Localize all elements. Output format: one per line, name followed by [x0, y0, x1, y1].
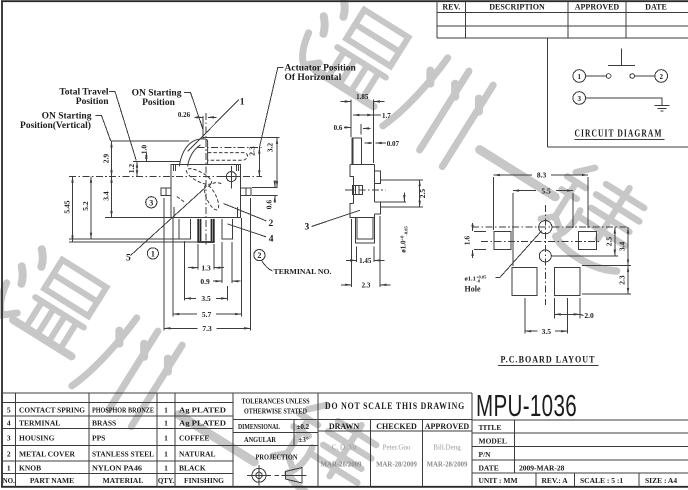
svg-text:5: 5 — [7, 406, 11, 415]
side view centerline through square — [345, 189, 386, 191]
svg-text:ON Starting: ON Starting — [42, 112, 92, 122]
svg-text:HOUSING: HOUSING — [19, 434, 55, 443]
svg-text:DO NOT SCALE THIS DRAWING: DO NOT SCALE THIS DRAWING — [325, 402, 465, 412]
rev table divider REV/DESCRIPTION — [465, 1, 467, 38]
leader total travel — [109, 92, 136, 161]
centerline horizontal through pivot — [69, 176, 262, 178]
svg-text:Bill.Deng: Bill.Deng — [433, 444, 461, 452]
pivot cross vertical — [230, 166, 232, 189]
dimension 3.4 — [111, 177, 113, 218]
leader actuator position — [259, 68, 283, 148]
svg-text:3.5: 3.5 — [201, 294, 211, 303]
pcb top hole — [539, 221, 552, 234]
svg-text:P.C.BOARD LAYOUT: P.C.BOARD LAYOUT — [501, 356, 596, 366]
svg-text:2.0: 2.0 — [584, 311, 594, 320]
label circled 1 — [147, 248, 158, 259]
circuit ground symbol — [655, 105, 670, 107]
svg-text:Ag PLATED: Ag PLATED — [179, 419, 227, 428]
dimension 1.2 — [136, 162, 138, 177]
parts table column QTY right — [174, 393, 176, 487]
leader 2 — [224, 204, 267, 221]
svg-text:BRASS: BRASS — [92, 419, 116, 428]
svg-text:CONTACT SPRING: CONTACT SPRING — [19, 406, 85, 415]
parts table column MATERIAL right — [156, 393, 158, 487]
watermark bottom chain: wen — [0, 241, 112, 358]
svg-text:CHECKED: CHECKED — [376, 422, 417, 431]
svg-text:1: 1 — [164, 434, 168, 443]
svg-text:1.6: 1.6 — [463, 236, 472, 246]
watermark top chain: jian — [534, 157, 658, 279]
svg-text:1.0: 1.0 — [140, 145, 149, 155]
svg-text:8.3: 8.3 — [537, 171, 547, 180]
svg-text:2.5: 2.5 — [604, 237, 613, 247]
circuit actuator stem — [620, 49, 622, 66]
svg-text:TERMINAL: TERMINAL — [19, 419, 60, 428]
actuator knob inner arc — [188, 145, 201, 167]
svg-text:TERMINAL NO.: TERMINAL NO. — [274, 267, 332, 276]
watermark bottom chain: jian — [266, 394, 390, 490]
title label divider — [514, 420, 516, 473]
title row line model — [472, 432, 688, 434]
pcb dimension 2.3 — [582, 293, 631, 295]
svg-text:2: 2 — [269, 219, 274, 229]
svg-text:2.3: 2.3 — [248, 146, 257, 156]
svg-text:5.45: 5.45 — [63, 200, 72, 213]
svg-text:5.7: 5.7 — [202, 310, 212, 319]
svg-text:Hole: Hole — [465, 285, 481, 294]
svg-text:0.26: 0.26 — [178, 111, 191, 119]
actuator horizontal position dashed outline — [208, 153, 248, 161]
front view body (metal cover) — [171, 165, 241, 218]
body bottom-right notch — [237, 207, 239, 218]
svg-text:QTY.: QTY. — [158, 477, 175, 485]
svg-text:DESCRIPTION: DESCRIPTION — [489, 3, 545, 12]
pcb left small pad — [494, 231, 511, 249]
svg-text:METAL COVER: METAL COVER — [19, 450, 76, 459]
svg-text:BLACK: BLACK — [179, 464, 206, 473]
svg-text:PROJECTION: PROJECTION — [256, 454, 298, 462]
svg-text:1.3: 1.3 — [201, 263, 211, 272]
leader 5 — [131, 187, 206, 255]
pcb bottom hole — [539, 250, 551, 262]
svg-text:CIRCUIT DIAGRAM: CIRCUIT DIAGRAM — [575, 129, 663, 140]
pivot cross horizontal — [223, 176, 239, 178]
svg-text:MPU-1036: MPU-1036 — [476, 388, 577, 423]
watermark bottom chain: yi — [179, 415, 254, 462]
knob dashed bean upper-left — [184, 166, 213, 188]
svg-text:MAR-28/2009: MAR-28/2009 — [321, 462, 362, 469]
pcb right small pad — [578, 231, 596, 249]
parts table right border — [232, 393, 234, 487]
extension line actuator apex right — [204, 137, 280, 139]
circuit wire terminal3 — [586, 98, 663, 106]
svg-text:3: 3 — [305, 223, 310, 233]
svg-text:2.3: 2.3 — [362, 282, 371, 290]
rev table left border — [436, 1, 438, 38]
tolerance block right border — [317, 393, 319, 487]
side view stem (knob side) — [352, 138, 362, 165]
circuit wire terminal1 to contact — [586, 75, 607, 77]
svg-text:3.5: 3.5 — [542, 327, 552, 336]
knob dashed arc top-right — [208, 183, 223, 187]
dimension 5.45 — [72, 177, 74, 242]
svg-text:PPS: PPS — [92, 434, 105, 443]
svg-text:STANLESS STEEL: STANLESS STEEL — [92, 450, 154, 459]
tolerance row line 1 — [233, 419, 318, 421]
svg-text:COFFEE: COFFEE — [179, 434, 209, 443]
svg-text:2.5: 2.5 — [418, 189, 427, 199]
svg-text:1.45: 1.45 — [359, 257, 372, 265]
svg-text:0.6: 0.6 — [265, 200, 274, 210]
svg-text:3: 3 — [577, 95, 581, 103]
leader 1 — [188, 100, 239, 152]
svg-text:2: 2 — [659, 73, 663, 81]
svg-text:NYLON PA46: NYLON PA46 — [92, 464, 142, 473]
pcb bottom left pad — [512, 268, 537, 296]
bottom row dividers — [535, 473, 537, 487]
extension line right tab top — [252, 186, 278, 188]
label circled 2 — [254, 250, 265, 261]
rev table row line 1 — [437, 12, 688, 14]
svg-text:1.2: 1.2 — [127, 164, 136, 174]
svg-text:±0.2: ±0.2 — [297, 423, 310, 431]
leader 4 — [228, 224, 267, 237]
leader ON starting vertical — [96, 116, 111, 142]
svg-text:0.07: 0.07 — [387, 140, 400, 148]
knob shaft front (center, black) — [198, 219, 214, 242]
dimension 2.3 side — [351, 219, 353, 287]
body top-right notch — [236, 165, 238, 171]
pcb dimension 5.5 — [512, 193, 514, 266]
dimension 5.2 — [90, 177, 92, 240]
svg-text:5.5: 5.5 — [541, 186, 551, 195]
donot divider drawn/checked — [370, 420, 372, 487]
rev table bottom line — [437, 37, 688, 39]
body bottom-left notch — [173, 207, 175, 218]
pcb caption underline — [498, 365, 599, 367]
dimension 1.0 — [145, 153, 147, 162]
left side tab — [161, 188, 171, 196]
circuit contact circle left — [606, 74, 611, 79]
svg-text:Position(Vertical): Position(Vertical) — [20, 120, 91, 131]
svg-text:1: 1 — [164, 419, 168, 428]
dimension 7.3 — [163, 198, 165, 331]
svg-text:NATURAL: NATURAL — [179, 450, 216, 459]
label circled 3 — [146, 197, 157, 208]
svg-text:0.9: 0.9 — [200, 277, 210, 286]
circuit actuator bar — [608, 65, 635, 67]
dimension 1.7 — [353, 114, 374, 116]
svg-text:ON Starting: ON Starting — [132, 89, 182, 99]
side view right bump 2 — [374, 202, 380, 214]
svg-text:2009-MAR-28: 2009-MAR-28 — [519, 464, 565, 473]
svg-text:TITLE: TITLE — [479, 423, 502, 432]
circuit box bottom border — [548, 146, 688, 148]
extension line body bottom left — [105, 216, 171, 218]
pcb dimension 3.5 — [524, 298, 526, 334]
svg-text:1: 1 — [7, 464, 11, 473]
circuit terminal 2 circle — [655, 70, 668, 83]
svg-text:±3°: ±3° — [299, 436, 309, 444]
circuit terminal 3 circle — [573, 92, 586, 105]
actuator knob vertical position outer arc — [179, 139, 207, 167]
terminal 2 front (right) — [222, 219, 233, 239]
svg-text:2.3: 2.3 — [618, 275, 627, 285]
svg-text:MAR-28/2009: MAR-28/2009 — [376, 462, 417, 469]
terminal 1 front (left) — [179, 219, 191, 239]
svg-text:PART NAME: PART NAME — [30, 476, 74, 485]
svg-text:1: 1 — [164, 406, 168, 415]
parts table top border — [2, 392, 472, 394]
svg-text:1: 1 — [151, 249, 155, 258]
svg-text:2.9: 2.9 — [102, 154, 111, 164]
leader terminal no — [262, 260, 273, 271]
parts table column NO right — [15, 393, 17, 487]
centerline vertical of front view — [205, 113, 207, 247]
svg-text:FINISHING: FINISHING — [184, 476, 224, 485]
svg-text:PHOSPHOR BRONZE: PHOSPHOR BRONZE — [92, 407, 154, 415]
svg-text:Of Horizontal: Of Horizontal — [285, 73, 342, 83]
circuit diagram caption underline — [575, 138, 665, 140]
svg-text:3.4: 3.4 — [102, 191, 111, 201]
pcb bottom right pad — [555, 268, 581, 296]
donot row line — [318, 419, 472, 421]
dimension 2.3 right — [258, 147, 260, 176]
pcb centerline horizontal through top hole — [472, 226, 629, 228]
svg-text:4: 4 — [269, 235, 274, 245]
svg-text:MATERIAL: MATERIAL — [103, 476, 144, 485]
pcb hole label leader — [496, 231, 542, 278]
svg-text:1.7: 1.7 — [382, 112, 391, 120]
svg-text:Position: Position — [76, 97, 109, 107]
knob dashed dash lower-left — [177, 197, 185, 203]
svg-text:1: 1 — [164, 464, 168, 473]
parts table column PART NAME right — [88, 393, 90, 487]
dimension 3.5 front — [184, 241, 186, 301]
svg-text:Peter.Guo: Peter.Guo — [383, 444, 411, 452]
svg-text:DATE: DATE — [645, 3, 667, 12]
svg-text:DRAWN: DRAWN — [329, 422, 359, 431]
pcb dimension 1.6 — [474, 230, 486, 232]
watermark top chain: yi — [480, 150, 555, 197]
dimension 0.9 — [221, 242, 223, 283]
pcb centerline through small pads — [481, 240, 601, 242]
svg-text:1: 1 — [240, 98, 245, 108]
side view lower block — [350, 204, 374, 218]
svg-text:REV.: REV. — [442, 3, 460, 12]
extension line terminal bottom — [69, 238, 179, 240]
svg-text:APPROVED: APPROVED — [425, 422, 470, 431]
title row line date — [472, 459, 688, 461]
circuit contact circle right — [630, 74, 635, 79]
svg-text:REV.: A: REV.: A — [542, 476, 569, 485]
svg-text:SIZE : A4: SIZE : A4 — [645, 476, 677, 485]
dimension 5.7 — [172, 218, 174, 316]
svg-text:5: 5 — [126, 254, 131, 264]
svg-text:DIMENSIONAL: DIMENSIONAL — [238, 423, 280, 431]
svg-text:3.2: 3.2 — [266, 143, 275, 153]
side view terminal cross square — [352, 186, 362, 195]
svg-text:1: 1 — [577, 73, 581, 81]
svg-text:Ag PLATED: Ag PLATED — [179, 406, 227, 415]
ON start offset line — [202, 116, 204, 139]
pcb dimension 3.4 — [582, 265, 631, 267]
rev table divider APPROVED/DATE — [625, 1, 627, 38]
body top-left notch — [173, 165, 175, 171]
svg-text:KNOB: KNOB — [19, 464, 41, 473]
svg-text:3: 3 — [149, 198, 153, 207]
side view right bump 1 — [374, 171, 380, 183]
svg-text:3: 3 — [7, 434, 11, 443]
svg-text:P/N: P/N — [479, 450, 492, 459]
watermark top chain: wen — [293, 0, 415, 108]
frame border top — [1, 0, 688, 2]
svg-text:Position: Position — [142, 98, 175, 108]
pcb centerline vertical — [544, 205, 546, 305]
donot right border — [471, 393, 473, 487]
frame border bottom — [1, 486, 688, 488]
svg-text:3.4: 3.4 — [618, 241, 627, 251]
extension line total travel — [133, 161, 180, 163]
dimension 2.5 side — [381, 179, 423, 181]
svg-text:APPROVED: APPROVED — [575, 3, 620, 12]
circuit wire contact to terminal2 — [635, 75, 655, 77]
frame border left — [1, 1, 3, 488]
title block top of rows — [472, 419, 688, 421]
svg-text:2: 2 — [7, 450, 11, 459]
svg-text:TOLERANCES UNLESS: TOLERANCES UNLESS — [242, 398, 310, 406]
projection symbol target — [252, 468, 266, 482]
svg-text:NO.: NO. — [3, 477, 16, 485]
dimension 1.45 — [356, 246, 358, 262]
dimension 3.2 right — [276, 138, 278, 188]
projection symbol cone — [286, 468, 303, 484]
svg-text:DATE: DATE — [479, 464, 499, 473]
svg-text:ANGULAR: ANGULAR — [244, 436, 277, 444]
svg-text:MODEL: MODEL — [479, 437, 507, 446]
dimension 1.3 — [197, 244, 199, 270]
pcb dimension 2.0 — [554, 298, 556, 319]
svg-text:5.2: 5.2 — [81, 201, 90, 211]
svg-text:Total Travel: Total Travel — [59, 88, 109, 98]
svg-text:0.6: 0.6 — [334, 124, 343, 132]
donot divider checked/approved — [421, 420, 423, 487]
svg-text:1.85: 1.85 — [356, 93, 369, 101]
right side tab — [241, 188, 251, 196]
dimension 2.9 — [111, 141, 113, 176]
rev table divider DESCRIPTION/APPROVED — [567, 1, 569, 38]
tolerance value divider — [293, 420, 295, 446]
watermark bottom chain: zhou — [70, 307, 184, 428]
pcb dimension 8.3 — [493, 177, 495, 230]
svg-text:Actuator Position: Actuator Position — [285, 64, 357, 74]
extension line ON vertical top — [111, 140, 189, 142]
svg-text:SCALE : 5 :1: SCALE : 5 :1 — [580, 476, 623, 485]
circuit box left border — [547, 38, 549, 147]
side view upper body — [350, 165, 374, 204]
parts table row lines — [2, 402, 233, 404]
svg-text:OTHERWISE STATED: OTHERWISE STATED — [244, 408, 307, 416]
pivot circle — [226, 172, 236, 182]
projection symbol dash — [275, 474, 280, 476]
watermark top chain: zhou — [381, 47, 495, 168]
leader ON starting center — [184, 93, 203, 131]
dimension phi 1.0 — [381, 201, 406, 203]
knob dashed bean lower-right — [201, 183, 221, 212]
dimension 0.07 — [364, 142, 372, 144]
svg-text:C. D. Yu: C. D. Yu — [332, 444, 357, 452]
extension line right tab bottom — [252, 195, 278, 197]
pcb dimension 2.5 — [551, 255, 618, 257]
side view bottom terminal — [355, 217, 374, 243]
dimension 1.85 — [350, 100, 352, 137]
svg-text:UNIT : MM: UNIT : MM — [479, 476, 518, 485]
svg-text:4: 4 — [7, 419, 11, 428]
title row line pn — [472, 446, 688, 448]
svg-text:7.3: 7.3 — [202, 324, 212, 333]
circuit terminal 1 circle — [573, 70, 586, 83]
svg-text:MAR-28/2009: MAR-28/2009 — [427, 462, 468, 469]
leader 3 — [312, 210, 361, 226]
title row line bottom — [472, 472, 688, 474]
extension line knob bottom — [69, 241, 198, 243]
actuator horizontal centerline dash-dot — [198, 146, 262, 148]
dimension 0.6 right — [274, 180, 276, 187]
rev table row line 2 — [437, 25, 688, 27]
svg-text:2: 2 — [257, 251, 261, 260]
svg-text:1: 1 — [164, 450, 168, 459]
